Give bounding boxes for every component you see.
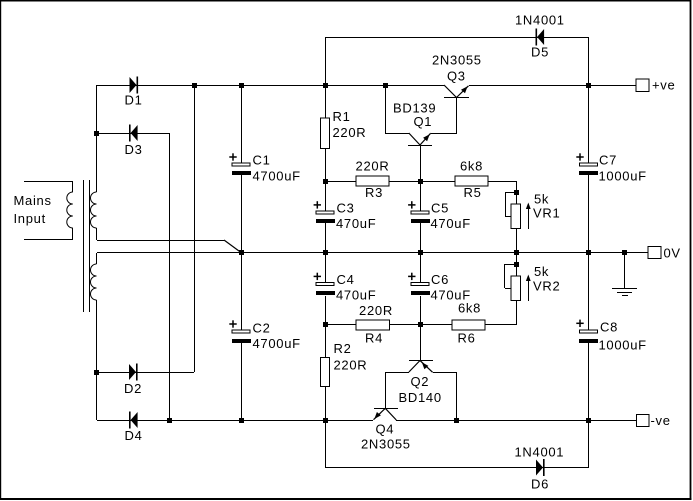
terminal +ve — [636, 79, 649, 92]
node ground tap on 0V rail — [622, 250, 627, 255]
node secondary-top / D3 junction — [94, 131, 99, 136]
node VR1 on 0V rail — [514, 250, 519, 255]
resistor R3 — [356, 176, 389, 186]
capacitor C1 — [232, 163, 250, 166]
svg-text:Q3: Q3 — [447, 69, 466, 84]
svg-text:D6: D6 — [531, 477, 549, 492]
svg-text:470uF: 470uF — [431, 216, 471, 231]
svg-text:Q4: Q4 — [376, 422, 395, 437]
svg-text:R1: R1 — [333, 109, 351, 124]
wire VR2 wiper link — [505, 264, 517, 265]
wire C6 lead — [420, 253, 421, 283]
svg-text:470uF: 470uF — [336, 216, 376, 231]
wire VR1 wiper link — [505, 192, 517, 193]
svg-text:C1: C1 — [253, 153, 271, 168]
diode D2 — [129, 364, 136, 380]
node Q2 collector on negative rail — [454, 418, 459, 423]
svg-text:R5: R5 — [463, 185, 481, 200]
wire D2 vertical — [194, 85, 195, 372]
wire centre tap upper lead — [97, 240, 224, 241]
wire negative rail right of Q4 — [396, 420, 637, 421]
node C2 bottom on negative rail — [239, 418, 244, 423]
terminal -ve — [637, 415, 650, 427]
node R1 bottom / R3 left — [323, 179, 328, 184]
node VR1 wiper tie — [514, 190, 519, 195]
wire C8 to negative rail — [588, 342, 589, 420]
svg-text:R3: R3 — [365, 185, 383, 200]
svg-text:D1: D1 — [125, 93, 143, 108]
capacitor C5 — [411, 211, 429, 214]
wire C2 lead — [241, 253, 242, 330]
wire R1 leads — [325, 85, 326, 118]
svg-text:R2: R2 — [334, 341, 352, 356]
wire C8 lead — [588, 253, 589, 330]
wire + rail (D1 row, left of Q3) — [97, 85, 444, 86]
wire top rail with D5 — [325, 37, 326, 85]
capacitor C6 — [411, 283, 429, 286]
svg-text:C6: C6 — [431, 272, 449, 287]
transistor Q3 2N3055 — [444, 97, 469, 98]
wire Q2 collector — [433, 372, 457, 373]
node C3 bottom on 0V rail — [323, 250, 328, 255]
svg-text:Input: Input — [14, 211, 46, 226]
wire secondary top terminal up to + rail — [96, 85, 97, 192]
svg-text:4700uF: 4700uF — [253, 168, 301, 183]
wire VR1 bottom to 0V — [516, 229, 517, 253]
wire negative rail (D4 row, left of Q4) — [97, 420, 373, 421]
svg-text:+ve: +ve — [652, 78, 675, 93]
svg-text:VR1: VR1 — [533, 206, 560, 221]
wire C3 to 0V — [325, 223, 326, 253]
transformer secondary upper winding — [91, 192, 97, 228]
svg-text:220R: 220R — [356, 159, 390, 174]
border frame (decorative) — [0, 0, 691, 2]
wire C4 to R4 row — [325, 296, 326, 325]
svg-text:0V: 0V — [664, 246, 681, 261]
svg-text:R4: R4 — [365, 331, 383, 346]
node D3-D4 vertical meets negative rail — [167, 418, 172, 423]
svg-text:D5: D5 — [531, 45, 549, 60]
wire R4-R6 row — [325, 324, 517, 325]
node R2 bottom on negative rail — [323, 418, 328, 423]
wire C5 lead — [420, 146, 421, 181]
svg-text:4700uF: 4700uF — [253, 336, 301, 351]
capacitor C8 — [580, 330, 598, 333]
wire C6 to R4 row — [420, 296, 421, 325]
VR1 wiper arrow — [528, 204, 529, 229]
node D2 cathode join + rail — [192, 83, 197, 88]
diode D1 — [130, 77, 137, 93]
transformer primary winding — [72, 182, 73, 192]
wire Q2 emitter to Q4 base — [385, 372, 409, 373]
transformer secondary lower winding — [96, 253, 97, 264]
svg-text:R6: R6 — [457, 331, 475, 346]
svg-text:220R: 220R — [334, 358, 368, 373]
node R1 top on + rail — [323, 83, 328, 88]
svg-text:C3: C3 — [337, 200, 355, 215]
svg-text:VR2: VR2 — [533, 279, 560, 294]
node secondary-bottom / D2 junction — [94, 370, 99, 375]
transformer core — [83, 180, 84, 312]
svg-text:-ve: -ve — [651, 413, 671, 428]
node R4-R6-C6-Q2 junction — [418, 322, 423, 327]
wire bottom rail with D6 — [325, 420, 326, 468]
svg-text:C4: C4 — [337, 272, 355, 287]
wire D3 row — [97, 133, 170, 134]
diode D6 — [536, 460, 543, 476]
wire R2 leads — [325, 325, 326, 358]
wire R3-R5 row — [325, 181, 517, 182]
svg-text:C2: C2 — [253, 321, 271, 336]
VR2 wiper arrow — [528, 276, 529, 301]
terminal 0V — [648, 247, 661, 259]
transistor Q1 BD139 — [408, 145, 432, 146]
wire VR1 top lead — [516, 181, 517, 204]
svg-text:1000uF: 1000uF — [599, 338, 647, 353]
capacitor C4 — [316, 283, 334, 286]
svg-text:1000uF: 1000uF — [599, 168, 647, 183]
svg-text:2N3055: 2N3055 — [361, 437, 411, 452]
transistor Q2 BD140 — [409, 360, 433, 361]
svg-text:BD140: BD140 — [399, 390, 442, 405]
svg-text:C8: C8 — [600, 319, 618, 334]
svg-text:D3: D3 — [125, 142, 143, 157]
potentiometer VR2 — [511, 276, 521, 301]
wire C2 to negative rail — [241, 343, 242, 420]
svg-text:D2: D2 — [124, 381, 142, 396]
wire C7 lead — [588, 85, 589, 163]
wire C1 lead — [241, 85, 242, 163]
node negative rail / C8 junction — [586, 418, 591, 423]
capacitor C3 — [316, 211, 334, 214]
svg-text:Q1: Q1 — [414, 114, 433, 129]
resistor R4 — [356, 320, 390, 330]
transformer primary top lead wire — [24, 181, 73, 182]
node centre tap on 0V rail — [239, 250, 244, 255]
svg-text:470uF: 470uF — [431, 288, 471, 303]
ground symbol — [624, 253, 625, 289]
transistor Q4 2N3055 — [374, 408, 398, 409]
svg-text:220R: 220R — [359, 303, 393, 318]
svg-text:5k: 5k — [534, 264, 549, 279]
svg-text:5k: 5k — [534, 192, 549, 207]
node R3-R5-C5-Q1 junction — [418, 179, 423, 184]
node C7 branch on 0V rail — [586, 250, 591, 255]
resistor R6 — [452, 320, 485, 330]
svg-text:D4: D4 — [125, 428, 143, 443]
svg-text:6k8: 6k8 — [458, 301, 481, 316]
node R4 left / R2 top — [323, 322, 328, 327]
resistor R2 — [321, 358, 330, 387]
svg-text:Mains: Mains — [14, 193, 52, 208]
svg-text:470uF: 470uF — [336, 288, 376, 303]
wire + rail right of Q3 — [469, 85, 636, 86]
svg-text:Q2: Q2 — [411, 374, 430, 389]
wire 0V rail — [97, 252, 648, 253]
node VR2 wiper tie — [514, 262, 519, 267]
wire Q2 base — [420, 325, 421, 361]
svg-text:220R: 220R — [333, 125, 367, 140]
wire D2 row — [97, 372, 194, 373]
svg-text:1N4001: 1N4001 — [515, 445, 565, 460]
node + rail / C7 junction — [586, 83, 591, 88]
capacitor C7 — [580, 163, 598, 166]
node C1 top on + rail — [239, 83, 244, 88]
wire C3 lead — [325, 181, 326, 211]
wire C5 to 0V — [420, 223, 421, 253]
potentiometer VR1 — [511, 204, 521, 229]
svg-text:C7: C7 — [599, 153, 617, 168]
wire VR2 bottom lead — [516, 301, 517, 325]
node Q1 collector tap on + rail — [383, 83, 388, 88]
node C5 bottom on 0V rail — [418, 250, 423, 255]
svg-text:C5: C5 — [431, 200, 449, 215]
wire VR2 top lead — [516, 253, 517, 276]
resistor R1 — [321, 118, 330, 149]
wire Q1 emitter to Q3 base — [431, 133, 457, 134]
resistor R5 — [455, 176, 488, 186]
diode D5 — [536, 29, 538, 46]
svg-text:6k8: 6k8 — [460, 159, 483, 174]
svg-text:2N3055: 2N3055 — [432, 53, 482, 68]
svg-text:1N4001: 1N4001 — [515, 13, 565, 28]
wire C7 to 0V — [588, 175, 589, 253]
wire C4 lead — [325, 253, 326, 283]
diode D4 — [129, 412, 131, 429]
diode D3 — [129, 125, 131, 142]
transformer primary bottom lead wire — [24, 239, 73, 240]
capacitor C2 — [232, 330, 250, 333]
wire D3-D4 vertical — [169, 133, 170, 420]
wire C1 to 0V rail — [241, 175, 242, 253]
wire Q1 collector — [385, 85, 386, 133]
